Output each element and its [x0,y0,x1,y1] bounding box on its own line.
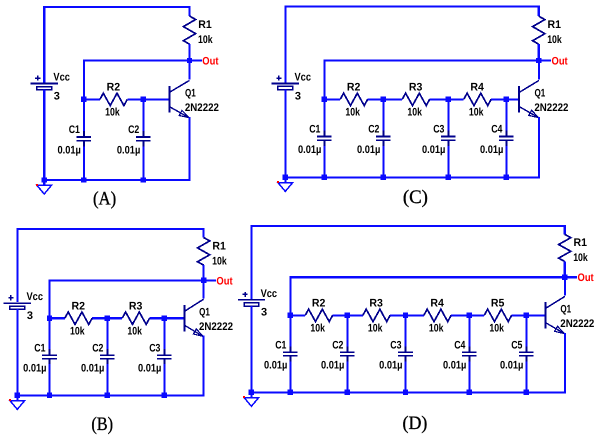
wire ladder to C1 (A) [83,99,85,131]
wire ladder to C1 (C) [323,99,325,131]
svg-text:R1: R1 [574,237,588,249]
svg-text:2N2222: 2N2222 [199,321,233,333]
wire collector to Out (B) [203,282,205,298]
svg-text:0.01µ: 0.01µ [480,144,503,156]
svg-text:C5: C5 [511,340,522,352]
wire C2 to ground rail (D) [346,361,348,392]
wire C3 to ground rail (D) [404,361,406,392]
wire ladder to C1 (B) [48,318,50,350]
resistor R5 (D) [484,298,511,335]
svg-text:R1: R1 [198,19,212,31]
svg-text:0.01µ: 0.01µ [264,360,287,372]
svg-text:0.01µ: 0.01µ [58,144,81,156]
svg-text:C4: C4 [491,124,503,136]
svg-text:Q1: Q1 [185,88,196,100]
label (B) [91,414,113,435]
resistor R2 (B) [65,300,92,337]
svg-text:10k: 10k [429,323,444,335]
label (A) [93,188,116,209]
svg-text:Out: Out [202,55,218,67]
svg-text:10k: 10k [127,325,142,337]
junction dots (C) [283,58,542,180]
wire ladder to C2 (D) [346,315,348,347]
capacitor C1 (C) [298,124,332,156]
wire ladder to C5 (D) [525,315,527,347]
svg-text:R1: R1 [548,19,562,31]
capacitor C3 (D) [379,340,413,372]
node Out (C) [536,55,568,67]
ground (A) [36,180,51,194]
wire RC ladder rail (B) [50,317,185,319]
svg-text:R5: R5 [491,298,505,310]
wire ladder to C3 (B) [163,318,165,350]
resistor R2 (D) [305,298,332,335]
capacitor C3 (C) [422,124,456,156]
svg-text:0.01µ: 0.01µ [321,360,344,372]
svg-text:10k: 10k [469,107,484,119]
svg-text:C1: C1 [34,342,45,354]
wire C1 to ground rail (A) [83,146,85,180]
svg-text:R3: R3 [129,300,143,312]
label (C) [403,187,428,208]
wire feedback Out to RC ladder (D) [290,277,562,315]
ground (C) [277,177,292,191]
svg-text:(B): (B) [91,414,113,435]
svg-text:10k: 10k [345,107,360,119]
wire ladder to C4 (D) [468,315,470,347]
svg-text:0.01µ: 0.01µ [138,362,161,374]
capacitor C2 (C) [357,124,391,156]
svg-text:0.01µ: 0.01µ [357,144,380,156]
svg-text:C3: C3 [390,340,401,352]
svg-text:Out: Out [216,275,232,287]
battery Vcc C [272,72,311,103]
wire ladder to C4 (C) [505,99,507,131]
wire ladder to C3 (D) [404,315,406,347]
capacitor C3 (B) [138,342,172,374]
svg-text:Vcc: Vcc [27,291,44,303]
battery Vcc B [4,291,43,322]
svg-text:R2: R2 [312,298,326,310]
resistor R2 (C) [340,82,367,119]
node Out (D) [562,272,594,284]
ground (B) [9,395,24,409]
svg-text:C2: C2 [368,124,379,136]
svg-text:10k: 10k [70,325,85,337]
svg-text:Out: Out [552,55,568,67]
svg-text:10k: 10k [368,323,383,335]
capacitor C2 (A) [117,124,151,156]
capacitor C2 (B) [81,342,115,374]
svg-text:3: 3 [27,310,33,322]
svg-text:10k: 10k [573,252,588,264]
wire Vcc supply rail (D) [251,226,564,299]
battery Vcc D [238,288,277,319]
svg-text:C1: C1 [275,340,286,352]
svg-text:R3: R3 [409,82,423,94]
svg-text:2N2222: 2N2222 [560,318,594,330]
wire ground rail (D) [251,391,528,393]
svg-text:R2: R2 [72,300,86,312]
wire R1 to Out node (C) [538,44,540,60]
svg-text:3: 3 [54,90,60,102]
wire Vcc supply rail (C) [285,7,538,83]
capacitor C1 (B) [23,342,57,374]
wire ladder to C3 (C) [447,99,449,131]
svg-text:(D): (D) [403,413,428,434]
label (D) [403,413,428,434]
resistor R4 (C) [464,82,491,119]
svg-text:0.01µ: 0.01µ [379,360,402,372]
resistor R1 (B) [198,238,228,268]
wire Vcc supply rail (A) [44,7,189,83]
svg-text:C2: C2 [92,342,103,354]
resistor R1 (A) [183,16,213,46]
wire ladder to C2 (A) [142,99,144,131]
wire Vcc supply rail (B) [17,229,203,302]
wire RC ladder rail (A) [84,98,169,100]
wire C2 to ground rail (B) [106,364,108,395]
wire battery to ground (D) [250,306,252,392]
wire battery to ground (B) [16,309,18,395]
svg-text:10k: 10k [198,34,213,46]
svg-text:Q1: Q1 [199,306,210,318]
svg-text:0.01µ: 0.01µ [117,144,140,156]
junction dots (A) [42,58,193,183]
svg-text:R2: R2 [107,82,121,94]
wire R1 to Out node (D) [564,262,566,278]
svg-text:0.01µ: 0.01µ [23,362,46,374]
svg-text:Q1: Q1 [535,88,546,100]
svg-text:Out: Out [578,272,594,284]
wire feedback Out to RC ladder (B) [50,280,202,318]
wire C4 to ground rail (D) [468,361,470,392]
wire RC ladder rail (D) [290,314,545,316]
wire C3 to ground rail (C) [447,146,449,178]
svg-text:R3: R3 [369,298,383,310]
svg-text:Q1: Q1 [560,304,571,316]
svg-text:10k: 10k [105,107,120,119]
svg-text:C3: C3 [433,124,444,136]
wire C1 to ground rail (B) [48,364,50,395]
svg-text:Vcc: Vcc [261,288,278,300]
capacitor C4 (D) [443,340,477,372]
capacitor C2 (D) [321,340,355,372]
svg-text:R2: R2 [347,82,361,94]
svg-text:C1: C1 [69,124,80,136]
resistor R4 (D) [424,298,451,335]
wire feedback Out to RC ladder (A) [84,61,188,100]
wire collector to Out (A) [188,63,190,80]
svg-text:0.01µ: 0.01µ [81,362,104,374]
wire battery to ground (C) [284,90,286,178]
wire C2 to ground rail (C) [382,146,384,178]
resistor R3 (D) [363,298,390,335]
capacitor C1 (D) [264,340,298,372]
svg-text:10k: 10k [547,34,562,46]
wire C4 to ground rail (C) [505,146,507,178]
svg-text:0.01µ: 0.01µ [443,360,466,372]
svg-text:3: 3 [261,307,267,319]
svg-text:10k: 10k [489,323,504,335]
capacitor C4 (C) [480,124,514,156]
svg-text:R1: R1 [212,240,226,252]
svg-text:0.01µ: 0.01µ [298,144,321,156]
resistor R1 (D) [559,234,589,264]
svg-text:0.01µ: 0.01µ [500,360,523,372]
wire ground rail (A) [44,179,145,181]
wire ground rail (B) [17,394,166,396]
svg-text:10k: 10k [212,255,227,267]
transistor Q1 (A) [169,80,219,118]
svg-text:Vcc: Vcc [295,72,312,84]
junction dots (B) [15,278,207,398]
wire emitter to ground rail (D) [526,333,565,392]
svg-text:10k: 10k [310,323,325,335]
transistor Q1 (D) [546,296,595,334]
transistor Q1 (C) [519,80,568,118]
wire battery to ground (A) [43,90,45,180]
resistor R2 (A) [100,82,127,119]
svg-text:2N2222: 2N2222 [185,102,219,114]
wire emitter to ground rail (A) [143,117,189,180]
wire R1 to Out node (A) [188,44,190,60]
junction dots (D) [249,275,568,396]
svg-text:3: 3 [295,90,301,102]
svg-text:(C): (C) [403,187,428,208]
svg-text:C4: C4 [454,340,466,352]
wire C5 to ground rail (D) [525,361,527,392]
node Out (B) [201,275,233,287]
wire ground rail (C) [285,176,508,178]
capacitor C1 (A) [58,124,92,156]
svg-text:C2: C2 [332,340,343,352]
wire ladder to C1 (D) [289,315,291,347]
wire ladder to C2 (C) [382,99,384,131]
wire RC ladder rail (C) [324,98,519,100]
svg-text:2N2222: 2N2222 [534,102,568,114]
resistor R1 (C) [533,16,563,46]
svg-text:(A): (A) [93,188,116,209]
wire emitter to ground rail (C) [506,117,539,177]
wire C1 to ground rail (C) [323,146,325,178]
svg-text:10k: 10k [407,107,422,119]
resistor R3 (B) [122,300,149,337]
wire feedback Out to RC ladder (C) [324,61,536,100]
svg-text:C2: C2 [128,124,139,136]
wire R1 to Out node (B) [203,265,205,280]
wire ladder to C2 (B) [106,318,108,350]
wire collector to Out (D) [564,279,566,295]
battery Vcc A [31,72,70,103]
wire C2 to ground rail (A) [142,146,144,180]
svg-text:Vcc: Vcc [53,72,70,84]
svg-text:R4: R4 [430,298,444,310]
svg-text:0.01µ: 0.01µ [422,144,445,156]
resistor R3 (C) [402,82,429,119]
svg-text:R4: R4 [470,82,484,94]
wire collector to Out (C) [538,63,540,80]
svg-text:C3: C3 [149,342,160,354]
ground (D) [243,392,258,406]
wire emitter to ground rail (B) [164,336,203,396]
node Out (A) [187,55,219,67]
transistor Q1 (B) [185,299,233,337]
wire C1 to ground rail (D) [289,361,291,392]
svg-text:C1: C1 [309,124,320,136]
wire C3 to ground rail (B) [163,364,165,395]
capacitor C5 (D) [500,340,534,372]
